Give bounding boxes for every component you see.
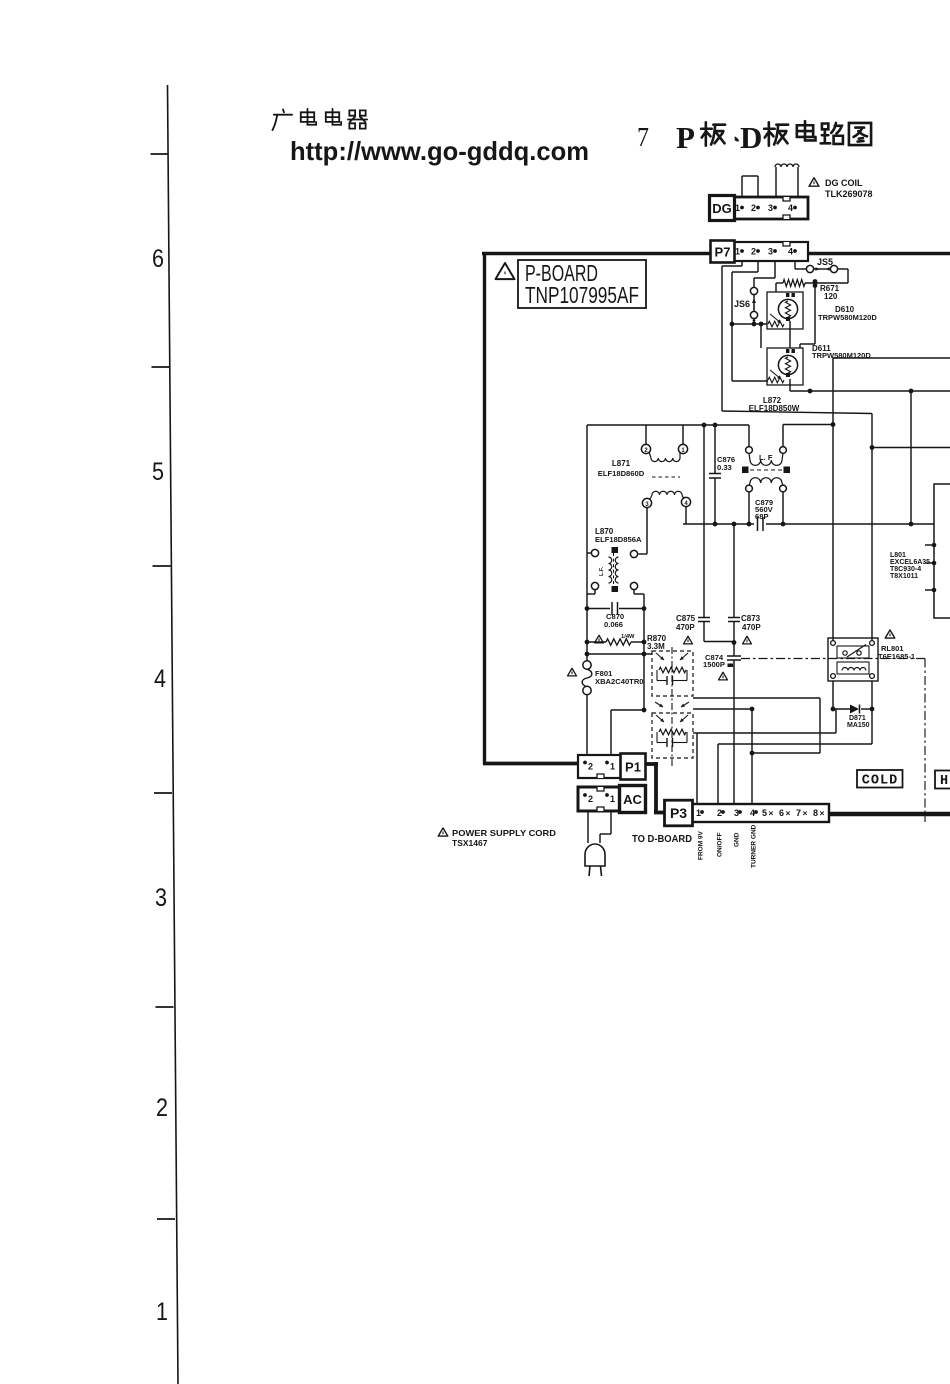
svg-text:5: 5 [152, 458, 164, 486]
svg-text:×: × [803, 808, 808, 818]
svg-text:120: 120 [824, 292, 838, 301]
svg-text:6: 6 [779, 808, 784, 818]
svg-text:3: 3 [768, 203, 773, 213]
svg-text:4: 4 [788, 203, 793, 213]
svg-text:TSX1467: TSX1467 [452, 838, 488, 848]
svg-text:GND: GND [734, 832, 741, 847]
svg-text:TNP107995AF: TNP107995AF [525, 282, 639, 308]
svg-text:0.33: 0.33 [717, 463, 732, 472]
svg-text:DG COIL: DG COIL [825, 178, 863, 188]
svg-text:D: D [740, 120, 762, 155]
svg-text:L. F: L. F [759, 453, 773, 462]
svg-text:P7: P7 [715, 245, 731, 260]
svg-text:T8C930-4: T8C930-4 [890, 566, 921, 573]
svg-text:1: 1 [735, 247, 740, 257]
svg-text:4: 4 [154, 665, 166, 693]
svg-text:FROM 9V: FROM 9V [698, 830, 705, 860]
svg-text:4: 4 [750, 808, 755, 818]
svg-text:MA150: MA150 [847, 722, 870, 729]
svg-text:TURNER GND: TURNER GND [751, 824, 758, 868]
svg-text:P1: P1 [625, 760, 641, 775]
svg-text:2: 2 [588, 794, 593, 804]
svg-text:8: 8 [813, 808, 818, 818]
svg-text:×: × [769, 808, 774, 818]
svg-text:L871: L871 [612, 459, 631, 468]
svg-text:XBA2C40TR0: XBA2C40TR0 [595, 677, 644, 686]
svg-text:EXCEL6A35: EXCEL6A35 [890, 559, 930, 566]
svg-text:T6E1685-1: T6E1685-1 [878, 652, 915, 661]
svg-text:P: P [676, 120, 695, 155]
svg-text:L.F.: L.F. [599, 566, 605, 576]
svg-text:T8X1011: T8X1011 [890, 573, 918, 580]
svg-text:1: 1 [735, 203, 740, 213]
svg-text:7: 7 [637, 122, 649, 152]
svg-text:DG: DG [712, 201, 732, 216]
svg-text:1: 1 [610, 794, 615, 804]
svg-text:COLD: COLD [862, 774, 898, 789]
svg-text:×: × [820, 808, 825, 818]
svg-text:http://www.go-gddq.com: http://www.go-gddq.com [290, 136, 589, 166]
svg-text:ON/OFF: ON/OFF [717, 832, 724, 857]
svg-text:3.3M: 3.3M [647, 642, 665, 651]
svg-text:1/4W: 1/4W [621, 634, 635, 640]
svg-text:470P: 470P [742, 623, 761, 632]
svg-text:TRPW580M120D: TRPW580M120D [818, 313, 877, 322]
svg-text:1500P: 1500P [703, 660, 725, 669]
svg-text:ELF18D856A: ELF18D856A [595, 535, 642, 544]
svg-text:2: 2 [751, 203, 756, 213]
svg-text:D871: D871 [849, 715, 866, 722]
svg-text:×: × [786, 808, 791, 818]
svg-text:TO D-BOARD: TO D-BOARD [632, 833, 692, 845]
svg-text:3: 3 [768, 247, 773, 257]
svg-text:C875: C875 [676, 614, 696, 623]
svg-text:ELF18D860D: ELF18D860D [598, 469, 645, 478]
svg-text:P3: P3 [670, 805, 687, 821]
svg-text:POWER SUPPLY CORD: POWER SUPPLY CORD [452, 828, 556, 838]
svg-text:AC: AC [623, 792, 642, 807]
svg-text:2: 2 [717, 808, 722, 818]
svg-text:2: 2 [156, 1094, 168, 1122]
svg-text:C873: C873 [741, 614, 761, 623]
svg-text:JS5: JS5 [817, 257, 833, 267]
svg-text:TLK269078: TLK269078 [825, 189, 873, 199]
svg-text:1: 1 [156, 1298, 168, 1326]
svg-text:JS6: JS6 [734, 299, 750, 309]
svg-text:5: 5 [762, 808, 767, 818]
svg-text:1: 1 [696, 808, 701, 818]
svg-text:3: 3 [155, 884, 167, 912]
svg-text:2: 2 [588, 762, 593, 772]
svg-text:3: 3 [734, 808, 739, 818]
svg-text:6: 6 [152, 245, 164, 273]
svg-text:0.066: 0.066 [604, 620, 623, 629]
svg-text:L801: L801 [890, 552, 906, 559]
svg-text:4: 4 [788, 247, 793, 257]
svg-text:1: 1 [610, 762, 615, 772]
svg-text:7: 7 [796, 808, 801, 818]
svg-text:470P: 470P [676, 623, 695, 632]
svg-text:2: 2 [751, 247, 756, 257]
svg-text:H: H [940, 774, 948, 789]
